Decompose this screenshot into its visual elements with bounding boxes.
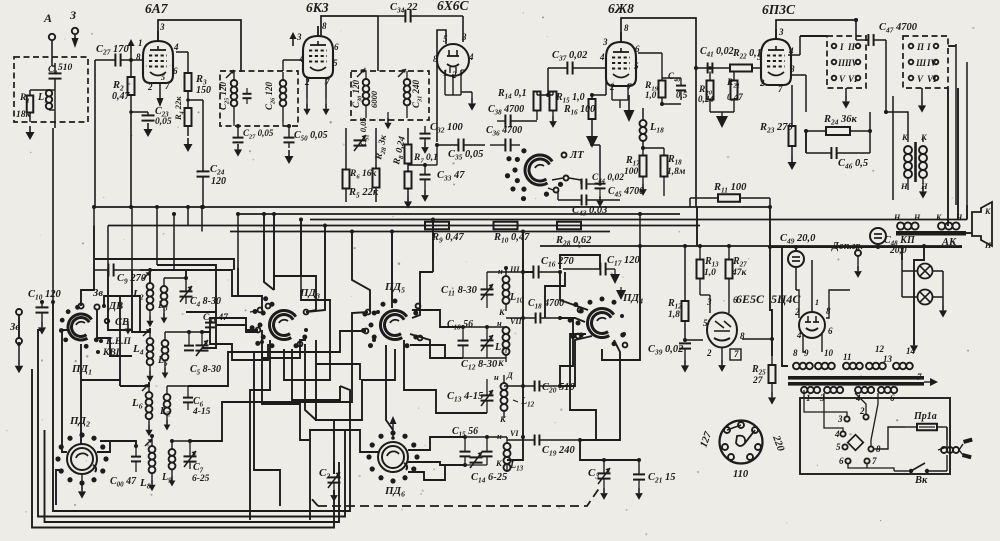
capacitor C10 120 xyxy=(28,289,61,322)
wires under 6K3 xyxy=(346,128,408,202)
wire bus y246 xyxy=(540,245,962,247)
ground C33 xyxy=(421,190,429,202)
svg-text:С33 47: С33 47 xyxy=(437,170,465,183)
coil L5 xyxy=(157,332,168,379)
switch Вк xyxy=(894,455,947,486)
wire C27 to grid xyxy=(95,53,143,62)
wire det to R17 xyxy=(590,145,602,186)
trimmer C51 0.05 xyxy=(354,117,371,151)
svg-text:С39 0,02: С39 0,02 xyxy=(648,344,684,357)
svg-text:С00 47: С00 47 xyxy=(110,476,137,489)
coil L8 xyxy=(139,436,155,491)
svg-text:3: 3 xyxy=(296,32,302,42)
svg-text:6: 6 xyxy=(334,42,339,52)
ПД3 stubs xyxy=(248,308,316,333)
wire x548 drop xyxy=(547,68,549,95)
dashed box IF transformer 1 xyxy=(220,71,298,126)
wire v x806 rect xyxy=(795,247,797,251)
svg-text:10: 10 xyxy=(824,348,834,358)
trimmer C2 xyxy=(319,467,341,502)
bus drop x301 xyxy=(300,220,302,291)
svg-text:Вк: Вк xyxy=(914,475,928,486)
svg-text:R15 1,0: R15 1,0 xyxy=(555,92,585,105)
wire w C3 C21 top xyxy=(580,440,639,460)
tube 6П3С xyxy=(761,2,796,85)
svg-text:2: 2 xyxy=(759,78,765,88)
svg-text:5: 5 xyxy=(634,61,639,71)
svg-text:2: 2 xyxy=(147,82,153,92)
svg-text:47к: 47к xyxy=(731,268,748,278)
wire w ПД5 weave1 xyxy=(334,349,395,474)
arrow above ПД6 xyxy=(390,416,397,440)
wire weave ПД1 d1 xyxy=(97,310,132,356)
wire 6П3С pin8 xyxy=(790,75,806,112)
ground C17 xyxy=(610,269,620,284)
coil L4 xyxy=(132,328,153,371)
wire loop3 xyxy=(45,430,340,522)
dashed chassis line xyxy=(310,487,600,506)
svg-text:н: н xyxy=(494,372,499,382)
wire w ПД1-L2 xyxy=(81,270,94,306)
ground R17 xyxy=(639,184,647,196)
resistor R23 270 xyxy=(759,85,796,156)
wire 6Х6С gnd xyxy=(461,92,476,111)
wire bus y207 xyxy=(94,206,770,208)
svg-text:1,0: 1,0 xyxy=(645,90,657,100)
svg-text:R7 0,1: R7 0,1 xyxy=(413,153,438,165)
svg-text:С34 22: С34 22 xyxy=(390,2,418,15)
wire v x274 xyxy=(273,214,275,276)
tuning arrow row4 xyxy=(145,439,152,446)
wire w rows left drop xyxy=(108,270,132,330)
terminal Dop.gr xyxy=(831,241,863,278)
bus drop x325 xyxy=(324,226,326,311)
selector rotor xyxy=(848,435,864,451)
capacitor C31 240 label xyxy=(411,79,424,108)
coil L1 xyxy=(37,90,55,112)
arrow below 6А7 cathode xyxy=(157,83,164,107)
coil L10 xyxy=(498,264,524,317)
svg-text:Н: Н xyxy=(893,213,901,222)
bus drop x238 xyxy=(237,214,239,268)
trimmer C3 xyxy=(588,460,611,500)
wire 6П3С pin4 xyxy=(788,36,827,55)
svg-text:R14 0,1: R14 0,1 xyxy=(497,88,527,101)
terminal Зв left xyxy=(9,309,22,344)
dashed box speaker plug xyxy=(903,36,948,88)
svg-text:С10 120: С10 120 xyxy=(28,289,61,302)
ground L2 xyxy=(146,316,153,327)
wire v speaker right xyxy=(966,205,968,220)
core bar AK xyxy=(896,231,966,236)
svg-text:С47 4700: С47 4700 xyxy=(879,22,918,35)
ground below antenna box xyxy=(26,126,35,140)
wire mesh x305 xyxy=(305,344,316,420)
wire loop ПД2 left xyxy=(56,470,62,505)
wire bus y214 xyxy=(238,213,680,215)
fuse Пр1а xyxy=(905,411,947,430)
wire w R12 top xyxy=(684,245,686,247)
svg-text:0,24: 0,24 xyxy=(698,94,714,104)
svg-text:8: 8 xyxy=(790,64,795,74)
svg-text:2: 2 xyxy=(706,348,712,358)
voice coil windings AK xyxy=(893,213,963,230)
svg-text:R24 36к: R24 36к xyxy=(823,114,857,127)
resistor R4 22k xyxy=(173,96,192,126)
wire w ПД6 right1 xyxy=(408,437,465,450)
svg-text:С16 270: С16 270 xyxy=(541,256,574,269)
wire OT core right xyxy=(892,96,894,200)
svg-text:3: 3 xyxy=(602,37,608,47)
wire w ПД6 right2 xyxy=(408,462,465,465)
wire w row3 to ПД5 xyxy=(188,331,366,386)
rotary switch ПД2 xyxy=(55,415,108,486)
resistor R11 100 xyxy=(690,182,770,207)
coil L12 xyxy=(494,370,535,424)
power transformer primary xyxy=(801,387,897,403)
pin labels 6К3 xyxy=(296,21,339,87)
wire mesh ПД5 down xyxy=(386,345,393,430)
wires 6Е5С xyxy=(683,295,729,372)
svg-text:Н: Н xyxy=(955,213,963,222)
wire w ПД5 top xyxy=(391,300,393,308)
capacitor C6 4-15 xyxy=(167,386,211,417)
svg-text:н: н xyxy=(498,266,503,276)
svg-text:3: 3 xyxy=(837,414,843,424)
wire weave x216 xyxy=(202,312,216,348)
svg-text:С27 170: С27 170 xyxy=(96,44,129,57)
terminals V VI xyxy=(832,74,861,84)
svg-text:С18 4700: С18 4700 xyxy=(528,298,564,311)
wire v right x770 xyxy=(769,207,771,247)
wire 6Ж8 cathode xyxy=(612,84,628,108)
svg-text:6000: 6000 xyxy=(369,90,379,108)
wire w ПД2 row4 xyxy=(97,441,110,452)
coil L13 xyxy=(465,429,524,473)
terminal A (antenna) xyxy=(43,11,55,40)
ground IF2 xyxy=(384,112,391,129)
svg-text:4: 4 xyxy=(468,52,474,62)
ground 6К3 cath xyxy=(303,98,329,115)
svg-text:С45 4700: С45 4700 xyxy=(608,186,644,199)
dial lamp 1 xyxy=(918,264,933,279)
capacitor C41 47 xyxy=(203,313,229,327)
capacitor C47 4700 xyxy=(856,20,918,50)
terminals III IV xyxy=(832,58,861,68)
wire mesh x352 xyxy=(352,232,370,313)
wire plate 6П3С up xyxy=(776,18,858,39)
svg-text:н: н xyxy=(497,431,502,441)
tube 5Ц4С rectifier xyxy=(799,312,825,338)
capacitor C41 0.02 xyxy=(694,46,734,74)
svg-text:1,0: 1,0 xyxy=(704,268,716,278)
wire w ПД3 down xyxy=(250,340,270,520)
svg-text:R23 270: R23 270 xyxy=(759,122,793,135)
capacitor C25 xyxy=(243,88,252,104)
wire w C9 L2 xyxy=(140,269,150,271)
terminals I II xyxy=(832,42,861,52)
capacitor C1 510 xyxy=(48,63,73,90)
selector contacts xyxy=(834,406,881,466)
coil IF2 left xyxy=(363,71,370,118)
coil L9 xyxy=(161,441,175,487)
resistor R22 0.1 xyxy=(730,48,762,72)
svg-text:13: 13 xyxy=(883,354,893,364)
labels 127 220 110 xyxy=(698,430,786,480)
rotary switch detector xyxy=(505,148,563,201)
wire w C2 line xyxy=(333,462,335,474)
wire weave v x573 xyxy=(560,318,573,386)
wire v left of rect xyxy=(781,246,783,356)
svg-text:н: н xyxy=(497,318,502,328)
svg-text:5: 5 xyxy=(703,318,708,328)
wire to 6Х6С anode xyxy=(462,16,464,42)
svg-text:0,47: 0,47 xyxy=(112,91,131,102)
svg-text:С14 6-25: С14 6-25 xyxy=(471,472,507,485)
capacitor C28 0.05 xyxy=(233,126,274,142)
wire v right x958 xyxy=(957,88,959,220)
tuning arrow row3 xyxy=(142,384,149,391)
terminals VI V b xyxy=(909,74,939,84)
switch lever contacts xyxy=(548,176,569,193)
svg-text:12: 12 xyxy=(875,344,885,354)
wire weave C41 to ПД3 xyxy=(215,325,258,332)
wire w ПД6 left xyxy=(310,430,378,520)
svg-text:СВ: СВ xyxy=(115,317,129,328)
wire loop left up1 xyxy=(38,330,42,360)
coil L6 xyxy=(131,382,152,425)
wire loop1 xyxy=(53,302,350,511)
capacitor C19 240 xyxy=(507,435,580,458)
svg-text:6: 6 xyxy=(828,326,833,336)
svg-text:6: 6 xyxy=(839,456,844,466)
svg-text:6Ж8: 6Ж8 xyxy=(608,1,634,16)
svg-text:С5 8-30: С5 8-30 xyxy=(190,364,221,377)
wire w ПД1 down xyxy=(80,344,82,444)
plug xyxy=(938,427,973,459)
grid-cap arrow 6К3 xyxy=(289,32,296,46)
resistor R19 1.0 xyxy=(644,81,666,101)
wire to IF2 xyxy=(377,16,379,71)
ground C28 xyxy=(234,144,242,157)
svg-text:110: 110 xyxy=(733,469,749,480)
wire w C18 ПД4 xyxy=(560,318,585,322)
svg-text:VI: VI xyxy=(510,429,519,438)
svg-text:С49 20,0: С49 20,0 xyxy=(780,233,816,246)
wire v x392 ПД5 xyxy=(391,232,393,301)
svg-text:6-25: 6-25 xyxy=(192,474,210,484)
wire 6Х6С left pin xyxy=(437,30,446,142)
svg-text:IV: IV xyxy=(847,58,859,68)
wire w C3 junction xyxy=(603,459,605,461)
wire w AK to speaker xyxy=(966,232,972,234)
wire w trans top left xyxy=(782,356,788,366)
wire bus y219 xyxy=(310,219,967,221)
svg-text:5: 5 xyxy=(161,73,165,82)
capacitor C17 120 xyxy=(563,255,640,276)
svg-text:2: 2 xyxy=(451,70,457,80)
resistor R15 1.0 xyxy=(550,92,585,117)
tuning arrow IF1 xyxy=(226,70,234,78)
capacitor C14 6-25 xyxy=(465,437,507,485)
coil IF2 right xyxy=(404,71,411,118)
resistor R24 36k xyxy=(806,114,870,135)
svg-text:С36 4700: С36 4700 xyxy=(486,125,522,138)
pin labels 6А7 xyxy=(136,22,179,92)
wire w row4 feed xyxy=(100,441,136,446)
wire ant through box xyxy=(30,63,55,122)
wire w ПД4 down xyxy=(602,246,640,360)
label 6000 xyxy=(369,90,379,108)
capacitor C18b 56 xyxy=(447,319,473,358)
svg-text:А: А xyxy=(43,11,52,25)
capacitor C15 56 xyxy=(452,426,478,465)
wire v x301 xyxy=(300,220,302,277)
wire row2 bottom xyxy=(463,357,506,359)
ground R20R21 xyxy=(716,112,728,128)
terminal Z (earth) xyxy=(69,8,79,48)
wire OT left up xyxy=(884,50,908,138)
ground R4 xyxy=(184,138,193,152)
svg-text:7: 7 xyxy=(778,84,783,94)
capacitor C25 120 label xyxy=(218,81,231,110)
capacitor C26 120 label xyxy=(264,81,277,110)
dashed box output terminals xyxy=(827,36,866,88)
resistor R2 0.47 xyxy=(112,77,135,102)
ground R7 xyxy=(404,196,412,209)
tuning arrow row2 xyxy=(143,329,150,336)
svg-text:З: З xyxy=(69,8,76,22)
wires dial lamps xyxy=(902,260,943,305)
svg-text:С18 56: С18 56 xyxy=(447,319,473,332)
ground R23 xyxy=(788,156,797,170)
resistor R7 0.1 xyxy=(405,153,438,189)
trimmer C12 8-30 xyxy=(461,327,506,372)
contact LT xyxy=(562,150,585,161)
wire weave ПД3 v2 xyxy=(292,349,340,400)
band contacts xyxy=(96,304,109,354)
wire w C17 from ПД4 xyxy=(560,255,600,269)
spokes ПД5 xyxy=(372,304,422,342)
wire v right x948 xyxy=(947,88,949,226)
svg-text:6Х6С: 6Х6С xyxy=(437,0,470,13)
resistor R14 0.1 xyxy=(497,88,541,120)
svg-text:3: 3 xyxy=(461,32,467,42)
wire w ПД5 weave2 xyxy=(412,272,433,318)
wire v x523 C16 xyxy=(523,232,533,273)
svg-text:5: 5 xyxy=(836,442,841,452)
svg-text:С35 0,05: С35 0,05 xyxy=(448,149,483,162)
pin labels 6П3С xyxy=(757,27,795,94)
capacitor C43 0.03 xyxy=(558,192,620,218)
capacitor C39 0.02 xyxy=(648,343,691,360)
wire weave ПД4 l1 xyxy=(570,334,596,440)
pin labels 5Ц4С xyxy=(794,298,833,340)
wire v x325 ПД3 xyxy=(306,226,325,313)
svg-text:3: 3 xyxy=(706,297,712,307)
svg-text:I: I xyxy=(839,42,844,52)
rotary switch ПД5 xyxy=(361,281,418,348)
ground R25 xyxy=(768,392,776,405)
capacitor C45 4700 xyxy=(595,183,645,207)
svg-text:С17 120: С17 120 xyxy=(607,255,640,268)
ground dial lamps xyxy=(939,305,947,318)
svg-text:6: 6 xyxy=(173,66,178,76)
label AK xyxy=(941,237,957,248)
wire weave ПД5 r3 xyxy=(404,340,487,413)
svg-text:2: 2 xyxy=(859,406,865,416)
svg-text:8: 8 xyxy=(322,21,327,31)
svg-text:3: 3 xyxy=(778,27,784,37)
svg-text:Н: Н xyxy=(913,213,921,222)
pin labels 6Е5С xyxy=(703,295,745,360)
svg-text:R11 100: R11 100 xyxy=(713,182,747,195)
svg-text:5: 5 xyxy=(757,52,762,62)
resistor R16 100 xyxy=(563,95,596,130)
wire w L2 top right xyxy=(150,270,186,278)
wire w ПД5 weave3 xyxy=(410,334,463,358)
resistor R1 18k xyxy=(16,90,49,120)
wire IF1 bottoms xyxy=(234,122,283,126)
wires output transformer xyxy=(908,138,923,190)
ground C32 xyxy=(421,142,429,154)
tube 6Ж8 xyxy=(606,1,636,86)
capacitor C27 170 xyxy=(96,44,129,67)
wire mesh x140 xyxy=(140,306,150,332)
svg-text:R16 100: R16 100 xyxy=(563,104,595,117)
wire loop4 xyxy=(32,369,334,528)
svg-text:П: П xyxy=(916,42,925,52)
resistor R28 3k xyxy=(373,133,391,187)
wire w ПД1 row3 xyxy=(81,380,120,386)
wire plate 6Ж8 up xyxy=(621,18,696,42)
svg-text:3: 3 xyxy=(159,22,165,32)
svg-text:4: 4 xyxy=(796,330,802,340)
svg-text:11: 11 xyxy=(843,352,852,362)
ground СВ xyxy=(125,321,132,335)
wire speaker drop2 xyxy=(966,62,968,205)
svg-text:С11 8-30: С11 8-30 xyxy=(441,285,478,298)
wire mesh ПД3 loops xyxy=(254,352,280,506)
capacitor C40 0.5 xyxy=(668,71,688,100)
selector box xyxy=(800,398,950,474)
svg-text:150: 150 xyxy=(196,85,211,96)
wire loop2 xyxy=(38,360,345,517)
wire w ПД1 к ПД2 xyxy=(62,330,68,452)
svg-text:100: 100 xyxy=(624,167,639,177)
svg-text:II: II xyxy=(847,42,856,52)
bus drop x274 xyxy=(273,214,275,290)
wire R3R4 xyxy=(176,52,190,136)
wire 6Х6С bottoms xyxy=(445,70,461,95)
svg-text:Д: Д xyxy=(506,370,514,380)
wire mesh x264 xyxy=(264,214,274,290)
svg-text:С21 15: С21 15 xyxy=(648,472,675,485)
svg-text:Н: Н xyxy=(920,181,928,191)
terminals IV III b xyxy=(909,58,939,68)
resistor R18 1.8M xyxy=(641,146,686,196)
wire w row1 to ПД3 xyxy=(186,270,262,310)
resistor R8 0.24 xyxy=(392,135,412,167)
left bus verticals xyxy=(94,207,188,270)
svg-text:К: К xyxy=(935,213,942,222)
svg-text:С19 240: С19 240 xyxy=(542,445,575,458)
svg-text:I: I xyxy=(926,42,931,52)
resistor R3 150 xyxy=(185,73,212,96)
resistor R28 0.62 xyxy=(555,222,592,248)
coil L3 xyxy=(157,278,168,324)
svg-text:С37 0,02: С37 0,02 xyxy=(552,50,588,63)
